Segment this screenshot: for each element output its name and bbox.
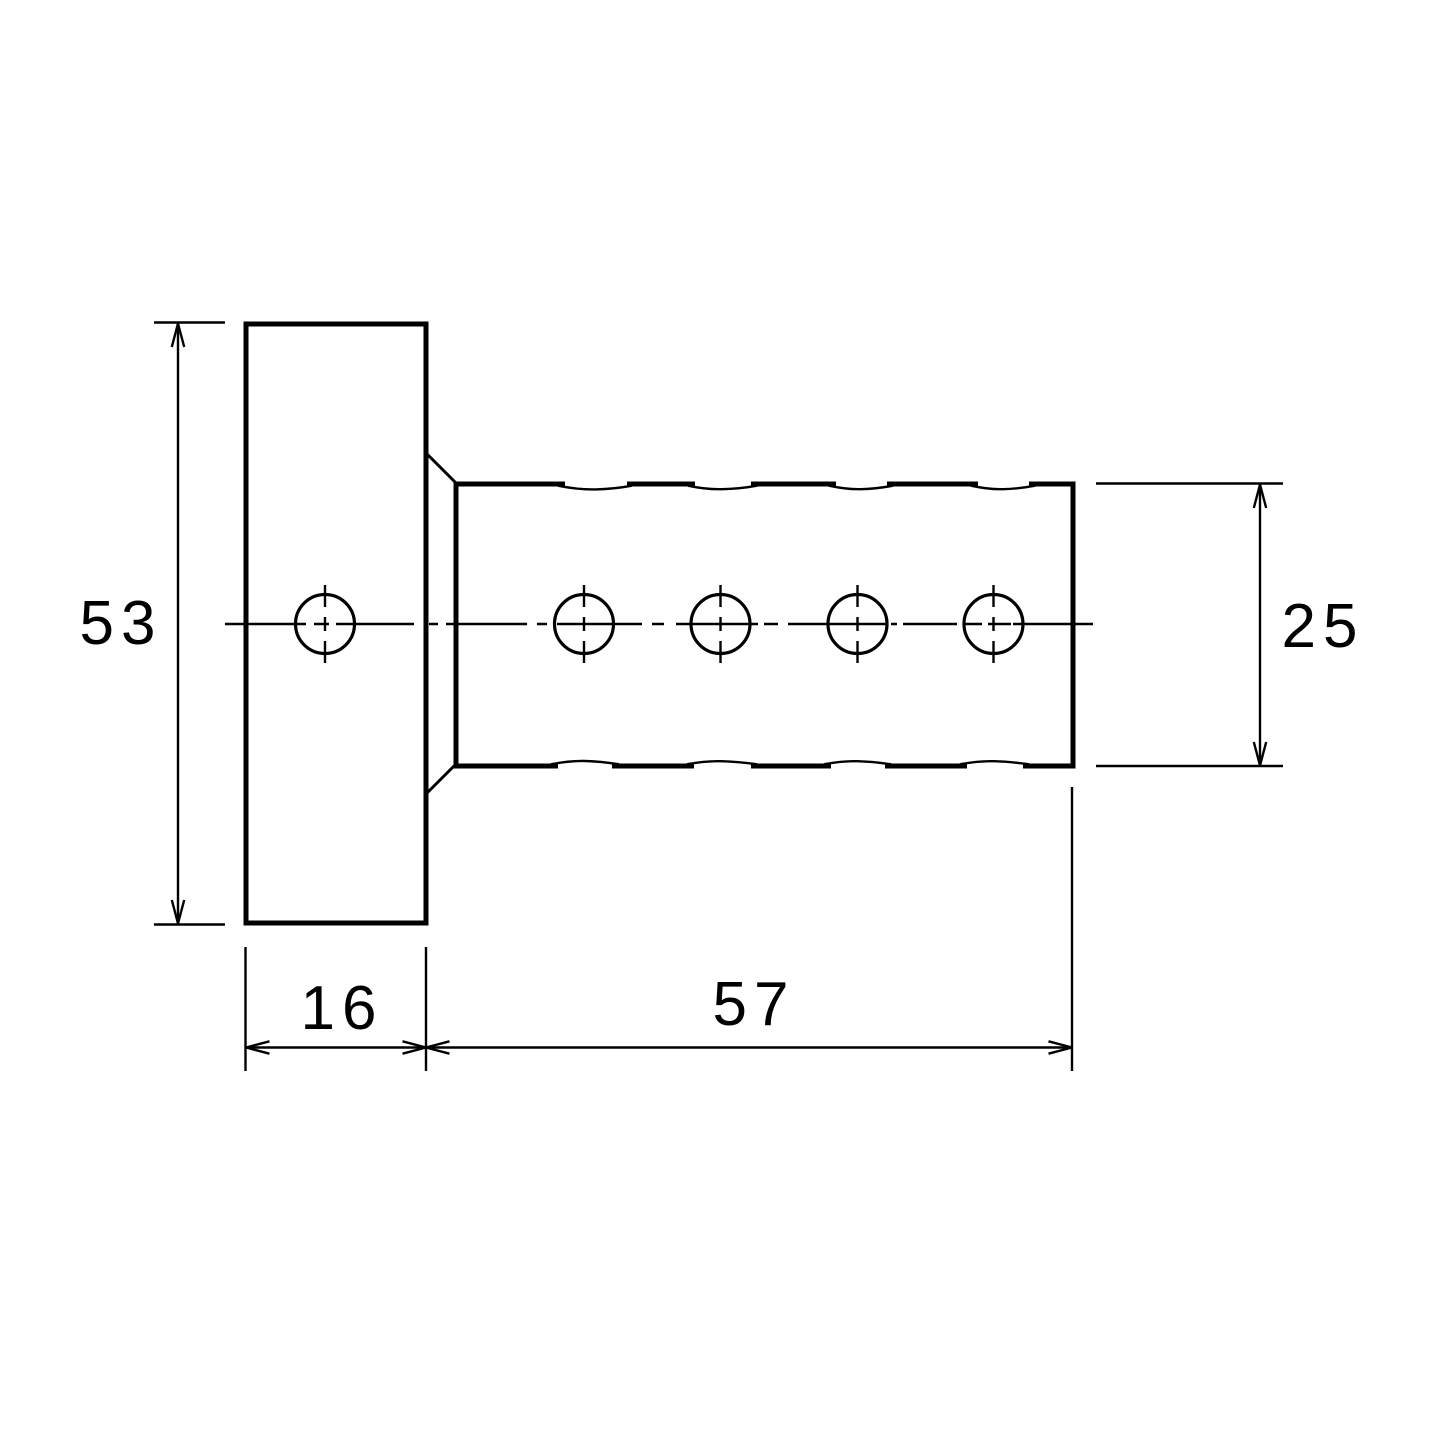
dim 57 extension line right	[1071, 787, 1073, 1071]
label 53	[80, 589, 163, 658]
hole H5	[964, 595, 1023, 654]
dim 25 dimension line	[1259, 484, 1261, 767]
label 16	[301, 974, 384, 1043]
tube bottom edge wavy bumps	[551, 761, 1029, 764]
dim 25 arrow up	[1254, 485, 1266, 509]
dim 16/57 shared extension line	[425, 947, 427, 1071]
flange outline	[246, 324, 426, 923]
dim 53 dimension line	[177, 323, 179, 925]
vertical center mark H3	[719, 585, 721, 663]
dim 53 arrow down	[172, 900, 184, 924]
svg-text:25: 25	[1282, 592, 1365, 661]
svg-text:53: 53	[80, 589, 163, 658]
hole H4	[828, 595, 887, 654]
top chamfer	[427, 454, 456, 483]
vertical center mark H2	[583, 585, 585, 663]
label 25	[1282, 592, 1365, 661]
dim 57 arrow right	[1049, 1041, 1073, 1053]
dim 57 arrow left	[426, 1041, 450, 1053]
tube left edge	[454, 482, 459, 769]
svg-text:16: 16	[301, 974, 384, 1043]
dim 53 extension tick top	[154, 321, 225, 323]
dim 16 arrow left	[246, 1041, 270, 1053]
label 57	[713, 970, 796, 1039]
vertical center mark H5	[992, 585, 994, 663]
tube top edge wavy dips	[558, 486, 1035, 490]
dim 16/57 dimension line	[246, 1046, 1073, 1048]
bottom chamfer	[427, 764, 456, 793]
hole H2	[555, 595, 614, 654]
tube right edge	[1071, 482, 1076, 769]
dim 25 arrow down	[1254, 742, 1266, 766]
vertical center mark H1	[324, 585, 326, 663]
vertical center mark H4	[856, 585, 858, 663]
hole H3	[691, 595, 750, 654]
tube bottom edge	[454, 764, 1076, 769]
dim 16 arrow right	[403, 1041, 427, 1053]
horizontal centerline	[225, 623, 1093, 625]
tube top edge	[454, 482, 1076, 487]
svg-text:57: 57	[713, 970, 796, 1039]
dim 16 extension line left	[244, 947, 246, 1071]
dim 25 extension tick top	[1096, 482, 1283, 484]
hole H1 (flange)	[296, 595, 355, 654]
dim 53 extension tick bottom	[154, 923, 225, 925]
dim 53 arrow up	[172, 324, 184, 348]
dim 25 extension tick bottom	[1096, 765, 1283, 767]
